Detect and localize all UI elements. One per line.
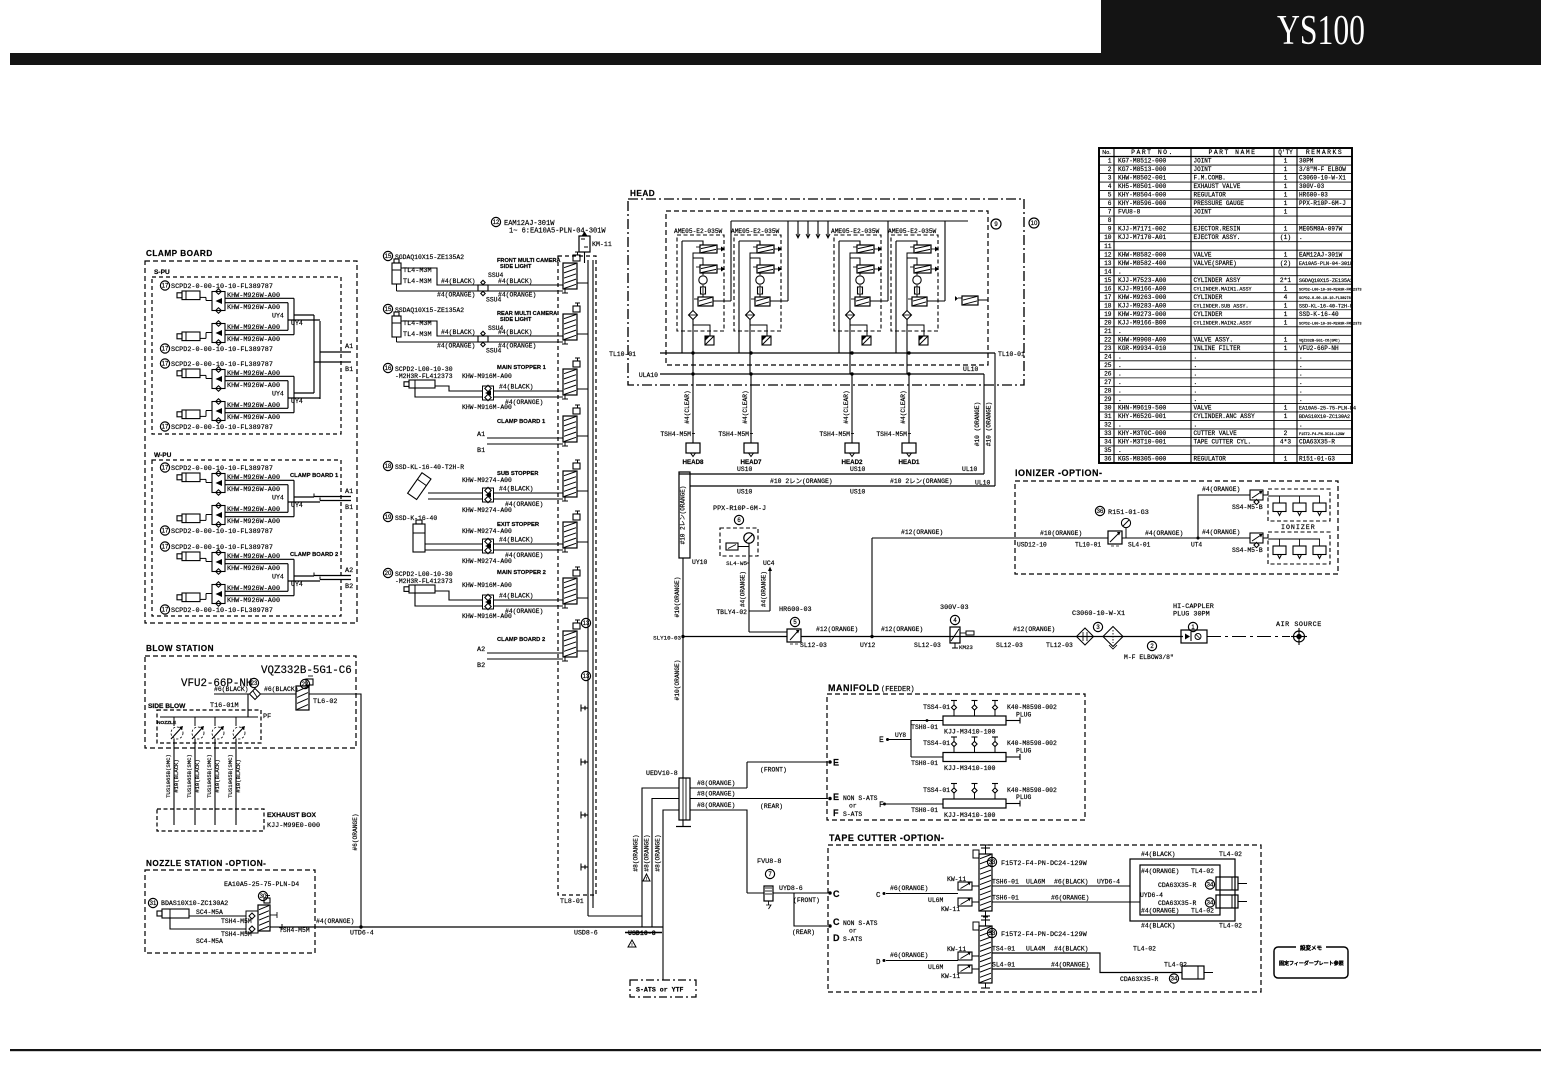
svg-text:TUS1065B(SMC): TUS1065B(SMC) — [227, 754, 234, 798]
svg-text:SCPD2-0-00-10-10-FL389787: SCPD2-0-00-10-10-FL389787 — [171, 544, 273, 552]
svg-text:MANIFOLD: MANIFOLD — [828, 683, 880, 693]
clamp board outer box — [145, 261, 357, 623]
wire port A to FRONT line — [690, 761, 831, 788]
svg-text:1: 1 — [1284, 311, 1288, 318]
svg-text:UY8: UY8 — [895, 732, 906, 739]
svg-text:TL10-01: TL10-01 — [609, 351, 636, 358]
stack valve 4 — [562, 405, 588, 446]
section HEAD — [630, 189, 655, 198]
circled 13 lower — [581, 671, 590, 680]
svg-text:C: C — [833, 889, 840, 899]
stack valve 6 — [562, 511, 588, 552]
svg-text:TSH4-M5M: TSH4-M5M — [876, 431, 907, 438]
svg-text:EJECTOR ASSY.: EJECTOR ASSY. — [1194, 234, 1241, 241]
svg-text:12: 12 — [1104, 251, 1112, 258]
svg-text:18: 18 — [1104, 302, 1112, 309]
svg-text:VFU2-66P-NH: VFU2-66P-NH — [1299, 345, 1339, 352]
svg-text:#8(ORANGE): #8(ORANGE) — [697, 780, 735, 787]
svg-text:4: 4 — [1284, 294, 1288, 301]
svg-text:SL12-03: SL12-03 — [914, 642, 941, 649]
svg-text:.: . — [1118, 353, 1122, 360]
svg-text:KG7-M8512-000: KG7-M8512-000 — [1118, 158, 1167, 165]
svg-text:#6(BLACK): #6(BLACK) — [214, 686, 249, 693]
svg-text:.: . — [1118, 387, 1122, 394]
svg-text:TSH4-M5M: TSH4-M5M — [660, 431, 691, 438]
cutter valve 33 lower F15T2 — [973, 917, 1088, 988]
svg-text:ULA10: ULA10 — [639, 372, 658, 379]
svg-text:UL10: UL10 — [962, 466, 978, 473]
wire to air source — [1207, 636, 1290, 638]
svg-text:#4(BLACK): #4(BLACK) — [1141, 851, 1176, 858]
svg-text:NON S-ATS: NON S-ATS — [843, 795, 878, 802]
coupler HI-CAPPLER — [1173, 603, 1214, 643]
nozzle station valve — [258, 896, 277, 932]
svg-text:VQZ332B-5G1-C6(SMC): VQZ332B-5G1-C6(SMC) — [1299, 338, 1340, 343]
svg-text:#12(ORANGE): #12(ORANGE) — [881, 626, 923, 633]
svg-text:#4(BLACK): #4(BLACK) — [1141, 923, 1176, 930]
svg-text:KHW-M9274-A00: KHW-M9274-A00 — [462, 507, 512, 514]
svg-text:SL12-03: SL12-03 — [800, 642, 827, 649]
svg-text:SL4-01: SL4-01 — [992, 962, 1015, 969]
svg-text:.: . — [1118, 422, 1122, 429]
svg-text:20: 20 — [385, 571, 392, 577]
feeder bar 1 KJJ-M3410-100 — [911, 701, 1057, 736]
svg-text:MAIN STOPPER 2: MAIN STOPPER 2 — [497, 570, 546, 576]
svg-text:#4(ORANGE): #4(ORANGE) — [1141, 868, 1179, 875]
cylinder group 17 W-PU bank D — [160, 542, 320, 615]
svg-text:UYD8-6: UYD8-6 — [779, 885, 803, 892]
svg-text:1: 1 — [1284, 183, 1288, 190]
svg-text:CUTTER VALVE: CUTTER VALVE — [1194, 430, 1238, 437]
svg-text:13: 13 — [1104, 260, 1112, 267]
stack valve 5 — [562, 460, 588, 501]
svg-text:18: 18 — [385, 464, 392, 470]
ionizer upper branch — [1198, 486, 1250, 538]
svg-text:SLY10-03: SLY10-03 — [653, 635, 681, 642]
svg-text:EA10A5-PLN-04-301W: EA10A5-PLN-04-301W — [1299, 261, 1353, 267]
valve TL6-02 — [296, 676, 361, 710]
fitting KM-11 — [579, 232, 612, 264]
node E UY8 — [879, 732, 911, 745]
svg-text:D: D — [876, 959, 881, 967]
svg-text:KHY-M3T0C-000: KHY-M3T0C-000 — [1118, 430, 1167, 437]
stack plug 4 — [581, 864, 588, 871]
svg-text:UY4: UY4 — [291, 320, 303, 327]
svg-text:CDA63X35-R: CDA63X35-R — [1158, 882, 1197, 889]
svg-text:.: . — [1118, 268, 1122, 275]
svg-text:K40-M8598-002: K40-M8598-002 — [1007, 704, 1057, 711]
svg-text:PLUG: PLUG — [1016, 748, 1032, 755]
svg-text:CLAMP BOARD: CLAMP BOARD — [146, 249, 213, 258]
svg-text:SCPD2-L00-10-30: SCPD2-L00-10-30 — [395, 571, 453, 578]
svg-text:A2: A2 — [345, 567, 353, 575]
svg-text:EA10A5-25-75-PLN-D4: EA10A5-25-75-PLN-D4 — [1299, 406, 1356, 412]
svg-text:27: 27 — [1104, 379, 1112, 386]
svg-text:E: E — [833, 758, 839, 768]
check pair group3 — [462, 373, 512, 411]
svg-text:21: 21 — [1104, 328, 1112, 335]
svg-text:REMARKS: REMARKS — [1306, 149, 1343, 156]
circled 10 — [1029, 218, 1039, 228]
svg-text:#4(ORANGE): #4(ORANGE) — [498, 343, 536, 350]
svg-text:B1: B1 — [345, 366, 353, 374]
valve stack supply rails — [588, 260, 593, 916]
main air line SLY10-03 — [653, 635, 1183, 642]
svg-text:34: 34 — [1104, 439, 1112, 446]
svg-text:(REAR): (REAR) — [792, 929, 815, 936]
svg-text:S-ATS: S-ATS — [843, 811, 862, 818]
cylinder 31 BDAS10X10 — [148, 898, 228, 918]
svg-text:CYLINDER.MAIN1.ASSY: CYLINDER.MAIN1.ASSY — [1194, 286, 1252, 292]
svg-text:.: . — [1118, 447, 1122, 454]
wire A2 B2 to valve — [477, 646, 563, 670]
cylinder 15 SGDAQ10X15 front camera — [383, 251, 464, 291]
ionizer box — [1015, 481, 1338, 574]
svg-text:#8(ORANGE): #8(ORANGE) — [644, 834, 651, 871]
wire valve D outputs — [992, 946, 1187, 973]
svg-text:1: 1 — [1284, 175, 1288, 182]
svg-text:KHW-M926W-A00: KHW-M926W-A00 — [227, 336, 280, 344]
svg-text:SCPD2-0-00-10-10-FL389787: SCPD2-0-00-10-10-FL389787 — [171, 607, 273, 615]
svg-text:KHW-M8582-000: KHW-M8582-000 — [1118, 251, 1167, 258]
svg-text:KHW-M9908-A00: KHW-M9908-A00 — [1118, 336, 1167, 343]
stack valve 3 — [562, 358, 588, 399]
svg-text:UY4: UY4 — [272, 495, 284, 502]
bus ULA10 — [639, 366, 984, 379]
svg-text:EXHAUST BOX: EXHAUST BOX — [267, 812, 317, 819]
svg-text:JOINT: JOINT — [1194, 166, 1212, 173]
svg-text:PPX-R10P-6M-J: PPX-R10P-6M-J — [1299, 200, 1346, 207]
svg-text:IONIZER -OPTION-: IONIZER -OPTION- — [1015, 468, 1103, 478]
speed controller SS4-M5-B upper — [1232, 490, 1268, 511]
svg-text:KGR-M9934-010: KGR-M9934-010 — [1118, 345, 1167, 352]
svg-text:PART NO.: PART NO. — [1131, 149, 1174, 156]
svg-text:KHW-M926W-A00: KHW-M926W-A00 — [227, 597, 280, 605]
svg-text:1~ 6:EA10A5-PLN-04-301W: 1~ 6:EA10A5-PLN-04-301W — [509, 228, 606, 236]
labels main line right — [996, 626, 1073, 649]
svg-text:TSS4-01: TSS4-01 — [923, 787, 950, 794]
svg-text:17: 17 — [162, 362, 169, 368]
svg-text:28: 28 — [1104, 387, 1112, 394]
svg-text:#12(ORANGE): #12(ORANGE) — [816, 626, 858, 633]
svg-text:2: 2 — [1108, 166, 1112, 173]
note 12 EAM12AJ-301W — [491, 217, 606, 235]
svg-text:#4(ORANGE): #4(ORANGE) — [505, 608, 543, 615]
svg-text:S-ATS: S-ATS — [843, 936, 862, 943]
node UT4 — [1191, 537, 1202, 549]
cylinder group 17 W-PU bank C — [160, 463, 320, 536]
svg-text:USD8-6: USD8-6 — [574, 930, 598, 937]
wires manifold left ports — [642, 788, 679, 980]
svg-text:#10(ORANGE): #10(ORANGE) — [674, 660, 681, 701]
svg-text:#4(ORANGE): #4(ORANGE) — [740, 571, 747, 607]
svg-text:#4(BLACK): #4(BLACK) — [498, 329, 533, 336]
svg-text:TSS4-01: TSS4-01 — [923, 704, 950, 711]
svg-text:1: 1 — [1284, 319, 1288, 326]
svg-text:SL4-01: SL4-01 — [1128, 542, 1151, 549]
svg-text:CDA63X35-R: CDA63X35-R — [1158, 900, 1197, 907]
feeder bar 3 — [911, 784, 1057, 820]
side blow manifold — [157, 694, 258, 809]
svg-text:PRESSURE GAUGE: PRESSURE GAUGE — [1194, 200, 1245, 207]
svg-text:#8(ORANGE): #8(ORANGE) — [697, 802, 735, 809]
circled 22 — [300, 679, 309, 688]
svg-text:Q'TY: Q'TY — [1278, 149, 1293, 156]
svg-text:1: 1 — [1284, 413, 1288, 420]
svg-text:#4(CLEAR): #4(CLEAR) — [742, 390, 749, 423]
svg-text:設変メモ: 設変メモ — [1300, 944, 1323, 952]
head exhaust comb — [796, 221, 830, 238]
svg-text:(1): (1) — [1280, 234, 1291, 241]
cylinder group 17 S-PU bank A — [160, 281, 320, 354]
label EA10A5 — [224, 881, 299, 901]
svg-text:.: . — [1118, 328, 1122, 335]
svg-text:KHW-M926W-A00: KHW-M926W-A00 — [227, 304, 280, 312]
svg-text:#4(BLACK): #4(BLACK) — [499, 537, 534, 544]
svg-text:HEAD2: HEAD2 — [842, 459, 864, 466]
section CLAMP BOARD — [146, 249, 213, 258]
wire FVU to REAR C D — [792, 893, 831, 936]
svg-text:1: 1 — [1284, 336, 1288, 343]
svg-text:TSH6-01: TSH6-01 — [992, 895, 1019, 902]
wire W-PU A2 B2 — [314, 567, 353, 591]
labels main line left — [800, 626, 941, 649]
svg-text:4*3: 4*3 — [1280, 439, 1291, 446]
svg-text:31: 31 — [150, 901, 157, 907]
svg-text:CYLINDER: CYLINDER — [1194, 294, 1223, 301]
svg-text:TUS1065B(SMC): TUS1065B(SMC) — [206, 754, 213, 798]
svg-text:19: 19 — [385, 515, 392, 521]
circled 9 — [991, 219, 1001, 229]
svg-text:#8(ORANGE): #8(ORANGE) — [655, 834, 662, 871]
svg-text:EJECTOR.RESIN: EJECTOR.RESIN — [1194, 226, 1241, 233]
svg-text:HEAD1: HEAD1 — [899, 459, 921, 466]
svg-text:.: . — [1194, 370, 1198, 377]
svg-text:SIDE LIGHT: SIDE LIGHT — [500, 317, 532, 323]
svg-text:REGULATOR: REGULATOR — [1194, 456, 1227, 463]
svg-text:1: 1 — [1284, 158, 1288, 165]
wire branch to ionizer — [871, 529, 1015, 638]
svg-text:UEDV10-8: UEDV10-8 — [646, 770, 678, 777]
svg-text:#10(ORANGE): #10(ORANGE) — [1040, 530, 1082, 537]
svg-text:CLAMP BOARD 2: CLAMP BOARD 2 — [290, 552, 338, 558]
svg-text:20: 20 — [1104, 319, 1112, 326]
svg-text:.: . — [1194, 422, 1198, 429]
svg-text:SCPD2-L00-10-30: SCPD2-L00-10-30 — [395, 366, 453, 373]
blow tube labels — [165, 754, 242, 798]
svg-text:#10 (ORANGE): #10 (ORANGE) — [986, 402, 993, 447]
svg-text:KHW-M926W-A00: KHW-M926W-A00 — [227, 382, 280, 390]
wire bar1 to UY8 — [911, 719, 943, 757]
bus TL10-01 — [609, 351, 1025, 358]
node C bold outer — [833, 889, 840, 899]
nozzle station wires — [170, 916, 310, 934]
svg-text:1: 1 — [1284, 285, 1288, 292]
memo note box — [1274, 944, 1348, 978]
node F inner — [879, 801, 943, 810]
svg-text:#4(BLACK): #4(BLACK) — [441, 329, 476, 336]
warning triangle mid — [643, 874, 650, 882]
svg-text:SSD-KL-16-40-T2H-R: SSD-KL-16-40-T2H-R — [395, 464, 464, 471]
svg-text:(FEEDER): (FEEDER) — [881, 686, 915, 694]
wire A1 B1 to valve — [477, 431, 563, 455]
svg-text:.: . — [1194, 387, 1198, 394]
label REAR upper — [760, 803, 783, 810]
svg-text:KW-11: KW-11 — [941, 973, 960, 980]
svg-text:W-PU: W-PU — [154, 452, 172, 459]
ionizer unit box 2 — [1268, 532, 1330, 564]
svg-text:1: 1 — [1284, 251, 1288, 258]
svg-text:-M2H3R-FL412373: -M2H3R-FL412373 — [395, 578, 453, 585]
wire to S-ATS box — [662, 926, 664, 928]
fitting SSU4 group1 — [478, 272, 504, 304]
svg-text:SCPD2-0-00-10-10-FL389787: SCPD2-0-00-10-10-FL389787 — [171, 528, 273, 536]
svg-text:KHW-M926W-A00: KHW-M926W-A00 — [227, 414, 280, 422]
svg-text:AME05-E2-035W: AME05-E2-035W — [831, 228, 880, 235]
svg-text:or: or — [849, 928, 857, 935]
svg-text:VALVE: VALVE — [1194, 251, 1212, 258]
svg-text:KHW-M9273-000: KHW-M9273-000 — [1118, 311, 1167, 318]
svg-text:UY4: UY4 — [272, 391, 284, 398]
svg-text:EAM12AJ-301W: EAM12AJ-301W — [1299, 251, 1343, 258]
section IONIZER — [1015, 468, 1103, 478]
svg-text:PART NAME: PART NAME — [1208, 149, 1256, 156]
stack bottom wire — [588, 915, 642, 917]
svg-text:24: 24 — [1104, 353, 1112, 360]
port UC4 — [716, 560, 774, 616]
svg-text:#10(BLACK): #10(BLACK) — [173, 759, 180, 793]
svg-text:17: 17 — [1104, 294, 1112, 301]
svg-text:#4(BLACK): #4(BLACK) — [499, 384, 534, 391]
svg-text:TS4-01: TS4-01 — [992, 946, 1015, 953]
svg-text:HR600-03: HR600-03 — [779, 606, 812, 614]
svg-text:SIDE BLOW: SIDE BLOW — [148, 703, 186, 710]
svg-text:SCPD2-0-00-10-10-FL389787: SCPD2-0-00-10-10-FL389787 — [171, 465, 273, 473]
svg-text:30: 30 — [260, 894, 267, 900]
svg-text:ME05M8A-097W: ME05M8A-097W — [1299, 226, 1343, 233]
svg-text:D: D — [833, 933, 840, 943]
svg-text:CYLINDER ASSY: CYLINDER ASSY — [1194, 277, 1241, 284]
svg-text:5: 5 — [1108, 192, 1112, 199]
wire C to valve — [876, 885, 979, 902]
svg-text:TSH8-01: TSH8-01 — [911, 724, 938, 731]
air source symbol — [1276, 621, 1322, 645]
svg-text:A2: A2 — [477, 646, 485, 654]
wire head line HEAD2 — [819, 352, 854, 443]
svg-text:29: 29 — [1104, 396, 1112, 403]
svg-text:KGS-M8305-000: KGS-M8305-000 — [1118, 456, 1167, 463]
svg-text:USD12-10: USD12-10 — [1017, 542, 1047, 549]
wire group2 to valve — [437, 329, 563, 350]
port SL4-W5 — [726, 560, 749, 567]
wire head line HEAD1 — [876, 352, 911, 443]
svg-text:4: 4 — [1108, 183, 1112, 190]
svg-text:#6(ORANGE): #6(ORANGE) — [890, 952, 928, 959]
svg-text:3/8"M-F ELBOW: 3/8"M-F ELBOW — [1299, 166, 1346, 173]
valve FVU8-8 7 — [747, 858, 831, 909]
labels #8 orange verticals — [633, 834, 662, 871]
stack valve 8 — [562, 620, 588, 661]
svg-text:NON S-ATS: NON S-ATS — [843, 920, 878, 927]
svg-text:15: 15 — [385, 254, 392, 260]
svg-text:KJJ-M3410-100: KJJ-M3410-100 — [944, 729, 995, 736]
svg-text:17: 17 — [162, 347, 169, 353]
svg-text:32: 32 — [1104, 422, 1112, 429]
svg-text:HEAD8: HEAD8 — [683, 459, 705, 466]
svg-text:TUS1065B(SMC): TUS1065B(SMC) — [165, 754, 172, 798]
wire group5 to valve — [428, 486, 563, 509]
wire head line HEAD8 — [660, 352, 695, 443]
svg-text:K40-M8598-002: K40-M8598-002 — [1007, 740, 1057, 747]
svg-text:JOINT: JOINT — [1194, 158, 1212, 165]
svg-text:KJJ-M3410-100: KJJ-M3410-100 — [944, 765, 995, 772]
svg-text:!: ! — [631, 942, 634, 948]
labels orange buses — [737, 478, 991, 496]
elbow label 2 — [1124, 641, 1174, 661]
svg-text:6: 6 — [1108, 200, 1112, 207]
svg-text:TSH8-01: TSH8-01 — [911, 760, 938, 767]
stack plug 3 — [581, 812, 588, 819]
label VQZ332B-5G1-C6 — [261, 665, 352, 677]
svg-text:#4(ORANGE): #4(ORANGE) — [761, 571, 768, 607]
svg-text:R151-01-G3: R151-01-G3 — [1299, 456, 1335, 463]
svg-text:MAIN STOPPER 1: MAIN STOPPER 1 — [497, 365, 547, 371]
svg-text:TSH8-01: TSH8-01 — [911, 807, 938, 814]
svg-text:TL6-02: TL6-02 — [313, 698, 337, 706]
svg-text:or: or — [849, 803, 857, 810]
label FRONT upper — [760, 767, 787, 774]
svg-text:UY10: UY10 — [692, 559, 708, 566]
speed controllers KW-11 lower — [928, 946, 972, 980]
svg-text:F.M.COMB.: F.M.COMB. — [1194, 175, 1226, 182]
svg-text:KHW-M9274-A00: KHW-M9274-A00 — [462, 477, 512, 484]
svg-text:15: 15 — [385, 307, 392, 313]
svg-text:-M2H3R-FL412373: -M2H3R-FL412373 — [395, 373, 453, 380]
svg-text:KHY-M8504-000: KHY-M8504-000 — [1118, 192, 1167, 199]
svg-text:#4(BLACK): #4(BLACK) — [1054, 946, 1089, 953]
svg-text:TUS1065B(SMC): TUS1065B(SMC) — [186, 754, 193, 798]
feeder bar 2 — [911, 737, 1057, 772]
svg-text:#4(ORANGE): #4(ORANGE) — [1141, 908, 1179, 915]
head valve group AME05 2 — [731, 221, 788, 374]
svg-text:KHW-M916M-A00: KHW-M916M-A00 — [462, 373, 512, 380]
svg-text:E: E — [833, 792, 839, 802]
svg-text:#6(BLACK): #6(BLACK) — [264, 686, 299, 693]
svg-text:B2: B2 — [477, 662, 485, 670]
label VFU2-66P-NH 23 — [181, 678, 259, 690]
svg-text:HEAD: HEAD — [630, 189, 655, 198]
svg-text:1: 1 — [1284, 200, 1288, 207]
svg-text:TAPE CUTTER CYL.: TAPE CUTTER CYL. — [1194, 439, 1252, 446]
svg-text:UY4: UY4 — [272, 313, 284, 320]
svg-text:25: 25 — [1104, 362, 1112, 369]
svg-text:CYLINDER: CYLINDER — [1194, 311, 1223, 318]
head port HEAD2 — [842, 443, 864, 466]
svg-text:17: 17 — [162, 466, 169, 472]
svg-text:UL6M: UL6M — [928, 964, 944, 971]
svg-text:E: E — [879, 736, 884, 745]
svg-text:1: 1 — [1284, 456, 1288, 463]
svg-text:9: 9 — [1108, 226, 1112, 233]
svg-text:SCPD2-0-00-10-10-FL389787: SCPD2-0-00-10-10-FL389787 — [1299, 297, 1353, 301]
svg-text:17: 17 — [162, 608, 169, 614]
svg-text:B1: B1 — [477, 447, 485, 455]
svg-text:CLAMP BOARD 1: CLAMP BOARD 1 — [497, 419, 546, 425]
svg-text:KJJ-M9166-A00: KJJ-M9166-A00 — [1118, 285, 1167, 292]
svg-text:FVU8-8: FVU8-8 — [1118, 209, 1141, 216]
svg-text:#6(BLACK): #6(BLACK) — [1054, 879, 1089, 886]
svg-text:M-F ELBOW3/8": M-F ELBOW3/8" — [1124, 654, 1174, 661]
